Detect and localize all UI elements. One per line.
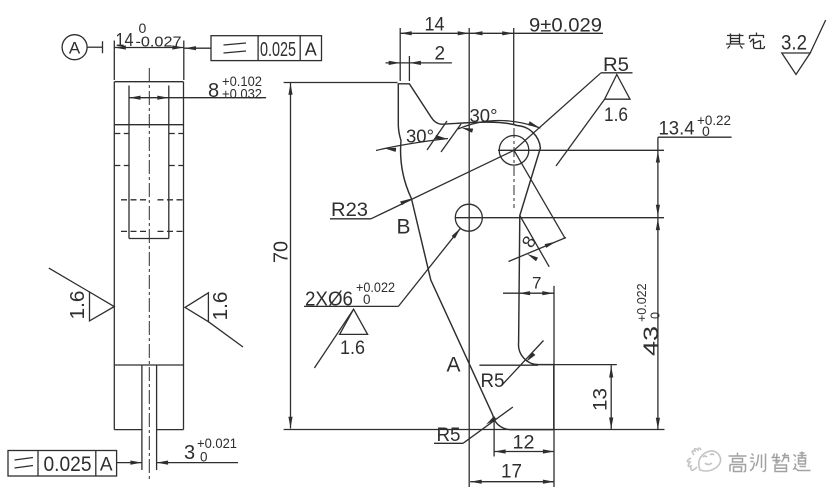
left view upper inner line bbox=[114, 124, 183, 126]
svg-text:+0.022: +0.022 bbox=[356, 280, 395, 295]
finish leader mid bbox=[314, 309, 353, 368]
inner bore right line bbox=[168, 86, 170, 239]
left leg bottom edge bbox=[114, 429, 142, 431]
roughness triangle bbox=[782, 53, 810, 75]
dim 13 top ext bbox=[554, 364, 617, 366]
dim 14 arrow bbox=[172, 45, 184, 49]
svg-text:R5: R5 bbox=[481, 371, 505, 392]
svg-text:3: 3 bbox=[184, 442, 195, 464]
30 deg arc 2 bbox=[458, 121, 540, 129]
hidden line bbox=[158, 199, 184, 201]
ext line x=400 bbox=[399, 28, 401, 81]
right leg bottom edge bbox=[157, 429, 184, 431]
hole top Ø6 bbox=[499, 136, 529, 166]
dim 3 arrow bbox=[130, 461, 142, 465]
roughness leg bbox=[810, 20, 826, 53]
R5 mid leader bbox=[502, 341, 544, 386]
ext line x=514 bbox=[513, 28, 515, 124]
dim 43/13.4 line bbox=[657, 137, 659, 429]
svg-text:0: 0 bbox=[200, 450, 208, 465]
lower hole horizontal centreline / ext bbox=[455, 217, 664, 219]
watermark text 高训智造 (drawn strokes) bbox=[729, 452, 811, 472]
R5 bottom arrow bbox=[486, 416, 497, 425]
svg-text:1.6: 1.6 bbox=[67, 291, 89, 320]
left view centerline bbox=[148, 68, 150, 480]
svg-text:3.2: 3.2 bbox=[781, 32, 807, 55]
R5 underline bbox=[601, 72, 633, 74]
dim 14 line bbox=[114, 47, 184, 49]
text 其它 (drawn strokes) bbox=[726, 33, 765, 49]
svg-text:0: 0 bbox=[649, 312, 663, 319]
watermark logo bbox=[687, 448, 720, 471]
svg-text:30°: 30° bbox=[406, 127, 434, 147]
top hole horizontal centreline / ext bbox=[498, 149, 664, 151]
frame leader bbox=[185, 47, 212, 49]
hidden line bbox=[121, 199, 147, 201]
ext line x=554 bbox=[553, 286, 555, 487]
2XØ6 leader bbox=[398, 228, 460, 306]
dim text 43 +0.022/0 rotated bbox=[635, 283, 663, 356]
finish triangle mid bbox=[340, 309, 368, 334]
svg-text:A: A bbox=[69, 39, 81, 58]
top hole centreline bbox=[513, 128, 515, 208]
R5 mid arrow bbox=[526, 352, 535, 362]
inner bore bottom line bbox=[129, 238, 169, 240]
dim 3 arrow bbox=[157, 461, 169, 465]
hidden line bbox=[169, 133, 184, 135]
dim 14 arrow bbox=[114, 45, 126, 49]
svg-text:R23: R23 bbox=[331, 200, 368, 221]
dim 14 left extension bbox=[113, 41, 115, 81]
svg-text:30°: 30° bbox=[470, 106, 498, 126]
dim 70 line bbox=[290, 83, 292, 429]
dim 14 right extension bbox=[183, 41, 185, 81]
finish leader bbox=[556, 99, 605, 166]
left view right edge bbox=[183, 82, 185, 430]
ext line x=409 bbox=[408, 56, 410, 81]
svg-text:2XØ6: 2XØ6 bbox=[305, 289, 353, 311]
top edge extension line bbox=[284, 82, 398, 84]
svg-text:B: B bbox=[397, 216, 411, 239]
svg-text:1.6: 1.6 bbox=[340, 338, 365, 359]
svg-text:43: 43 bbox=[640, 326, 663, 356]
left view slot top line bbox=[114, 364, 183, 366]
hole lower Ø6 bbox=[455, 204, 482, 231]
surface finish 1.6 right bbox=[185, 293, 208, 322]
svg-text:0: 0 bbox=[363, 292, 371, 307]
dim 3 line right bbox=[157, 462, 238, 464]
slot left edge + extension bbox=[141, 365, 143, 470]
datum A circle bbox=[62, 35, 87, 60]
finish triangle top bbox=[605, 75, 630, 100]
2XØ6 underline bbox=[304, 305, 398, 307]
svg-text:14: 14 bbox=[116, 30, 134, 50]
parallelism tolerance frame bottom bbox=[8, 451, 117, 477]
2XØ6 arrow bbox=[452, 228, 461, 238]
frame leader arrow bbox=[185, 46, 197, 50]
hidden line bbox=[158, 230, 184, 232]
finish leader left bbox=[49, 268, 90, 292]
svg-text:13: 13 bbox=[591, 388, 612, 411]
svg-text:1.6: 1.6 bbox=[210, 292, 232, 321]
bottom edge extension line bbox=[284, 429, 665, 431]
left view left edge bbox=[113, 82, 115, 430]
slot right edge + extension bbox=[156, 365, 158, 470]
R5 bottom underline bbox=[434, 442, 463, 444]
dim 3 line left bbox=[117, 462, 142, 464]
svg-text:9±0.029: 9±0.029 bbox=[529, 15, 602, 37]
parallelism tolerance frame top bbox=[211, 36, 322, 61]
30 deg arc 1 bbox=[376, 139, 448, 151]
svg-text:A: A bbox=[305, 40, 317, 60]
dim 13 line bbox=[610, 365, 612, 429]
svg-text:1.6: 1.6 bbox=[604, 105, 628, 126]
R23 arrow bbox=[400, 199, 411, 206]
R5 mid shelf bbox=[479, 364, 538, 366]
hidden line bbox=[114, 133, 129, 135]
hidden line bbox=[121, 230, 147, 232]
svg-text:0.025: 0.025 bbox=[260, 39, 296, 61]
finish leader right bbox=[208, 322, 243, 347]
datum A tick bbox=[102, 41, 104, 53]
angle tick 1 bbox=[427, 121, 447, 150]
svg-text:-0.027: -0.027 bbox=[136, 34, 182, 51]
svg-text:70: 70 bbox=[271, 241, 293, 263]
dim 2 line bbox=[386, 62, 452, 64]
left view top edge bbox=[114, 81, 183, 83]
svg-text:14: 14 bbox=[425, 15, 445, 36]
R23 underline bbox=[330, 218, 371, 220]
R23 leader bbox=[371, 150, 514, 219]
dim 12 line bbox=[494, 451, 554, 453]
dim 8 extension from tip bbox=[520, 216, 549, 267]
dim 17 line bbox=[470, 481, 554, 483]
svg-text:0.025: 0.025 bbox=[44, 452, 92, 476]
top dim line bbox=[400, 32, 603, 34]
svg-text:2: 2 bbox=[435, 44, 446, 65]
dim 8 line bbox=[129, 97, 266, 99]
svg-text:+0.022: +0.022 bbox=[635, 283, 649, 322]
svg-text:A: A bbox=[100, 455, 113, 476]
svg-text:+0.032: +0.032 bbox=[222, 87, 262, 102]
dim 12 ext bbox=[493, 417, 495, 457]
hidden line bbox=[114, 165, 129, 167]
surface finish 1.6 left bbox=[90, 292, 115, 321]
svg-text:7: 7 bbox=[532, 274, 541, 293]
dim 8 arrow bbox=[157, 96, 169, 100]
datum A tail bbox=[87, 46, 102, 48]
angle tick 2 bbox=[441, 124, 461, 152]
arc1 arrow bbox=[385, 148, 397, 152]
svg-text:8: 8 bbox=[208, 80, 219, 102]
svg-text:12: 12 bbox=[513, 433, 535, 454]
hidden line bbox=[169, 165, 184, 167]
svg-text:17: 17 bbox=[501, 462, 522, 483]
dim 8 arrow bbox=[129, 96, 141, 100]
dim 7 line bbox=[503, 292, 554, 294]
arm line bbox=[514, 150, 565, 238]
inner bore left line bbox=[128, 86, 130, 239]
svg-text:A: A bbox=[447, 354, 461, 377]
svg-text:13.4: 13.4 bbox=[659, 118, 695, 140]
ext line through lower hole bbox=[468, 28, 470, 487]
R5 bottom leader bbox=[463, 407, 513, 443]
part outline right view bbox=[398, 84, 554, 430]
dim 8 line right view bbox=[509, 238, 567, 262]
R5 leader bbox=[514, 73, 601, 151]
13.4 underline bbox=[658, 136, 732, 138]
